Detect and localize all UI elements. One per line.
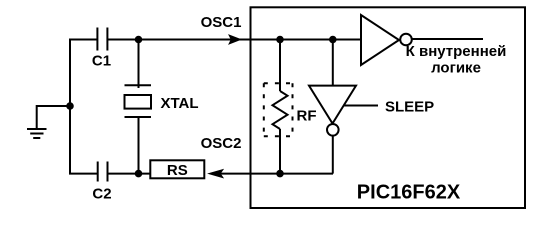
svg-text:PIC16F62X: PIC16F62X [357,182,461,204]
svg-text:C1: C1 [92,53,111,70]
svg-text:RF: RF [297,108,317,125]
svg-text:логике: логике [431,59,481,76]
svg-text:OSC1: OSC1 [201,14,242,31]
svg-text:К внутренней: К внутренней [406,43,507,60]
svg-text:XTAL: XTAL [160,95,198,112]
svg-text:SLEEP: SLEEP [385,98,434,115]
svg-text:RS: RS [167,162,188,179]
svg-text:OSC2: OSC2 [201,135,242,152]
svg-text:C2: C2 [92,186,111,203]
